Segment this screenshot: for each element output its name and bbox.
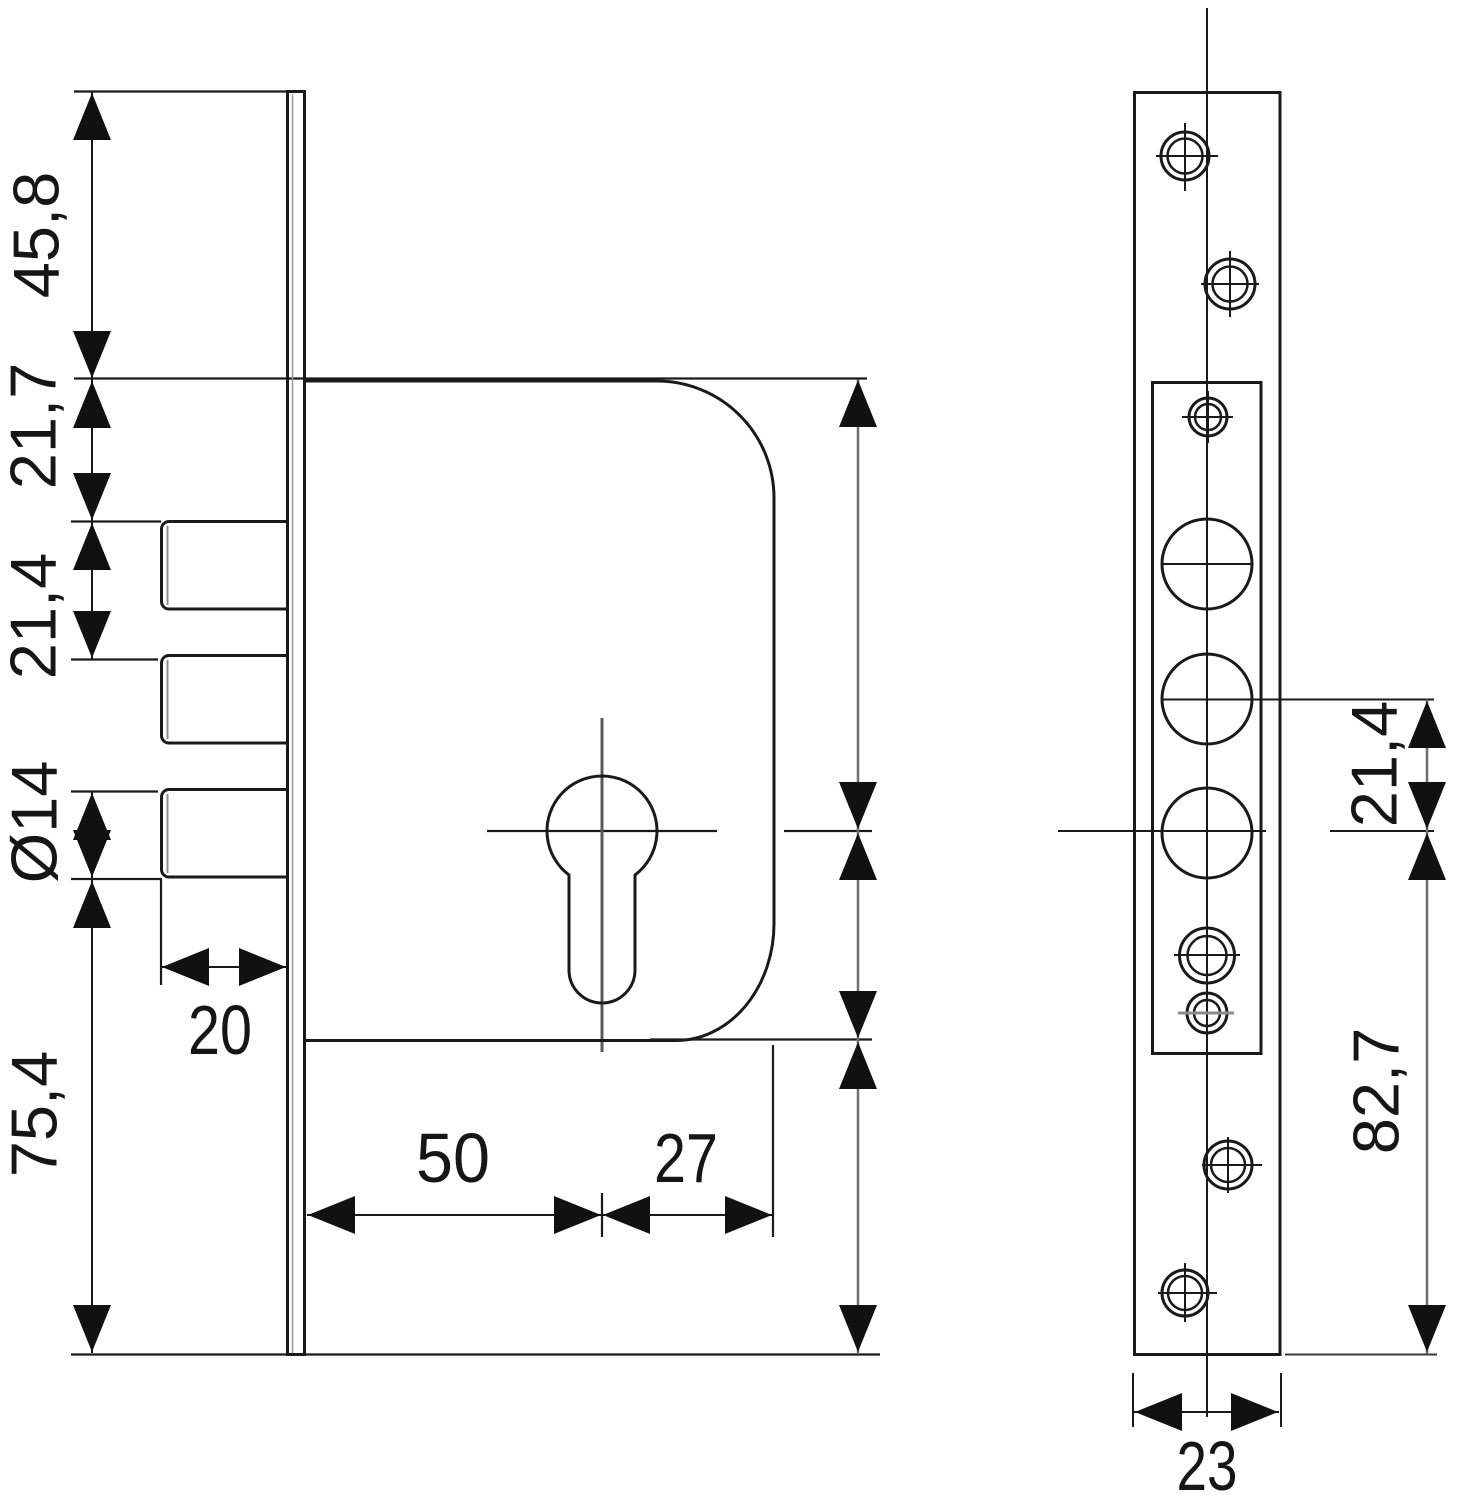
svg-text:21,4: 21,4 [0, 553, 70, 680]
bolt hole E [1162, 654, 1252, 744]
dim 21,4 [91, 522, 93, 660]
dim 45,8 [91, 92, 93, 380]
svg-text:23: 23 [1177, 1427, 1238, 1500]
vertical centerline [1206, 8, 1208, 1417]
svg-text:21,4: 21,4 [1338, 701, 1411, 828]
faceplate outline [1135, 93, 1281, 1355]
extension for 27 dim [772, 1045, 774, 1237]
bolt B1 [162, 522, 289, 610]
screw hole B [1201, 251, 1259, 317]
strike box [1153, 383, 1262, 1054]
extension for 20 dim [160, 878, 162, 985]
dim 20 [161, 948, 287, 986]
screw hole C [1182, 391, 1233, 443]
tick top bolt3 [71, 790, 158, 792]
cylinder vertical centerline [601, 718, 604, 1052]
baseline bottom [71, 1353, 880, 1355]
dim 75,4 [91, 879, 93, 1353]
dim 21,7 [91, 380, 93, 522]
tick top of faceplate [74, 90, 305, 92]
tick at cylinder height right [784, 830, 872, 832]
svg-text:20: 20 [188, 991, 252, 1069]
svg-text:50: 50 [416, 1119, 490, 1197]
screw hole I [1202, 1137, 1262, 1193]
tick bottom bolt3 [71, 878, 161, 880]
svg-text:45,8: 45,8 [0, 172, 73, 299]
bolt B2 [162, 656, 289, 744]
euro cylinder keyhole [547, 776, 657, 1003]
hole E centerline [1161, 699, 1434, 701]
cylinder vertical centerline lower segment [601, 1193, 603, 1237]
dim 21,4 right [1408, 700, 1446, 832]
faceplate [288, 92, 305, 1355]
svg-text:27: 27 [654, 1119, 718, 1197]
body top line + extension [74, 377, 867, 379]
bolt hole D [1162, 519, 1252, 609]
svg-text:21,7: 21,7 [0, 363, 70, 490]
cylinder horizontal centerline [487, 830, 717, 832]
main horizontal centerline [1058, 830, 1266, 832]
tick top bolt2 [71, 658, 158, 660]
bolt hole F [1162, 788, 1252, 878]
lock body [305, 381, 774, 1041]
body bottom extension [650, 1038, 872, 1040]
svg-text:82,7: 82,7 [1340, 1028, 1413, 1155]
screw hole J [1158, 1263, 1217, 1322]
screw hole H [1178, 993, 1234, 1033]
tick top bolt1 [71, 520, 161, 522]
bolt B3 [162, 790, 289, 878]
svg-text:75,4: 75,4 [0, 1051, 71, 1178]
dim 50 / 27 [307, 1196, 773, 1234]
hole D chord [1162, 563, 1252, 565]
dim 23 [1133, 1373, 1281, 1431]
screw hole G [1174, 928, 1240, 983]
screw hole A [1156, 123, 1218, 191]
svg-text:Ø14: Ø14 [0, 761, 71, 884]
dim 82,7 [1285, 831, 1446, 1355]
dim O14 [91, 792, 93, 880]
